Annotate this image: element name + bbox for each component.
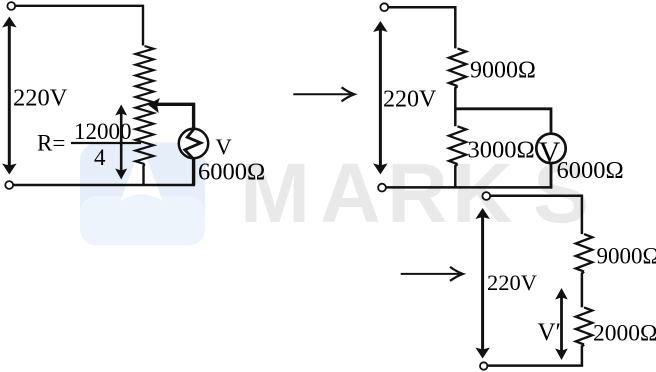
wire (circuit 1 bottom) — [14, 184, 196, 186]
voltmeter V2 — [536, 134, 565, 169]
svg-text:A: A — [320, 146, 381, 240]
svg-text:3000Ω: 3000Ω — [468, 136, 535, 163]
transform arrow 2 — [401, 267, 463, 281]
wiper arrow — [148, 98, 194, 129]
wire (circuit 2 top) — [389, 7, 456, 48]
label R=12000/4 — [37, 119, 141, 170]
wire (2000 ohm bottom lead) — [582, 345, 584, 367]
resistor 9000 ohm (circuit 2) — [449, 48, 466, 86]
wire (between resistors circuit 3) — [582, 272, 584, 308]
terminal A3 (circuit 3 top-left) — [482, 192, 490, 200]
svg-text:R: R — [387, 146, 448, 240]
source arrow 220V (circuit 3) — [475, 208, 490, 359]
svg-text:220V: 220V — [487, 270, 537, 295]
wire (3000 ohm bottom lead) — [455, 164, 457, 188]
svg-text:V: V — [216, 134, 232, 159]
wire (circuit 3 bottom) — [488, 364, 583, 367]
wire (voltmeter 2 bottom lead) — [550, 163, 553, 189]
V-prime span arrow — [555, 288, 568, 360]
source arrow 220V (circuit 1) — [2, 17, 17, 175]
svg-text:9000Ω: 9000Ω — [470, 57, 536, 83]
wire (circuit 2 mid junction) — [455, 86, 457, 126]
source arrow 220V (circuit 2) — [373, 21, 388, 174]
svg-text:9000Ω: 9000Ω — [597, 243, 656, 268]
svg-text:2000Ω: 2000Ω — [593, 320, 656, 346]
wire (junction to voltmeter 2) — [455, 109, 551, 134]
resistor 9000 ohm (circuit 3) — [576, 234, 593, 272]
svg-text:6000Ω: 6000Ω — [557, 157, 624, 184]
wire (circuit 3 top) — [490, 196, 582, 234]
svg-text:12000: 12000 — [74, 119, 132, 144]
resistor 3000 ohm (circuit 2) — [449, 126, 466, 164]
watermark text MARKS — [240, 146, 589, 240]
wire (circuit 1 top) — [16, 6, 144, 46]
watermark logo — [80, 143, 205, 246]
terminal A2 (circuit 2 top-left) — [380, 3, 388, 11]
resistor 2000 ohm (circuit 3) — [576, 307, 593, 344]
svg-text:4: 4 — [94, 145, 106, 170]
transform arrow 1 — [293, 87, 354, 101]
potentiometer R1 12000 ohm — [136, 46, 154, 164]
wire (voltmeter 1 bottom lead) — [192, 158, 195, 185]
wire (circuit 2 bottom) — [386, 186, 552, 189]
terminal B3 (circuit 3 bottom-left) — [480, 362, 487, 369]
svg-text:V′: V′ — [538, 319, 562, 346]
svg-text:220V: 220V — [383, 86, 437, 112]
terminal A1 (circuit 1 top-left) — [7, 2, 15, 10]
svg-text:6000Ω: 6000Ω — [198, 159, 265, 186]
terminal B1 (circuit 1 bottom-left) — [5, 181, 13, 189]
tap span arrow (R portion) — [115, 105, 127, 180]
wire (potentiometer bottom lead) — [144, 164, 145, 185]
svg-text:R=: R= — [37, 131, 65, 156]
voltmeter V1 (galvanometer symbol) — [179, 129, 208, 158]
svg-text:220V: 220V — [13, 85, 68, 112]
terminal B2 (circuit 2 bottom-left) — [378, 184, 386, 192]
